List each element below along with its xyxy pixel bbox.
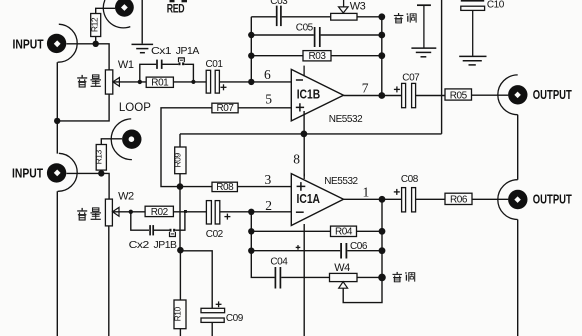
wire JP1B up to R02 out	[175, 212, 185, 230]
node input1/R12	[93, 41, 99, 47]
node pin7	[378, 92, 385, 99]
jack INPUT2	[47, 153, 77, 191]
wire sleeve between output jacks	[517, 115, 519, 180]
wire pin1 row to C08	[344, 198, 403, 200]
wire input1 sleeve down	[56, 62, 58, 153]
wire input1 tip to W1 top	[66, 44, 109, 70]
capacitor C04	[275, 267, 280, 289]
wire row C03	[251, 16, 276, 18]
wire C03 to W3	[282, 16, 331, 18]
svg-text:Cx1: Cx1	[151, 46, 172, 57]
wire C10 to ground	[472, 10, 474, 56]
wire RED jack sleeve (cut at top) to ground	[141, 0, 143, 44]
resistor R08	[212, 182, 237, 193]
wire C07 to R05	[416, 95, 446, 97]
wire input2 tip to W2	[66, 173, 109, 199]
node power row / pin8	[301, 131, 308, 138]
svg-text:R12: R12	[89, 17, 99, 32]
svg-text:OUTPUT: OUTPUT	[533, 88, 572, 102]
node pin1	[379, 196, 386, 203]
wire R04 to right net	[357, 230, 383, 232]
jumper JP1B	[169, 229, 175, 237]
wire R08 to pin3	[237, 186, 291, 188]
svg-text:5: 5	[265, 92, 272, 107]
svg-text:R02: R02	[151, 207, 169, 218]
svg-text:R09: R09	[173, 153, 183, 168]
svg-text:7: 7	[362, 81, 369, 96]
svg-text:R10: R10	[172, 306, 182, 321]
node C05 right	[378, 32, 385, 39]
capacitor C08 (electrolytic)	[402, 188, 416, 212]
jack LOOP	[111, 119, 141, 160]
wire IC1B left net vertical	[250, 17, 252, 82]
op-amp IC1B	[291, 66, 343, 121]
wire pin8 to IC1A	[303, 134, 305, 177]
node pin6/left net	[248, 79, 254, 85]
capacitor C06	[341, 243, 346, 259]
wire W1 wiper to R01	[113, 81, 146, 83]
jack RED (top, cut at image top)	[103, 0, 134, 28]
cut text fragments at top edge above RED	[170, 0, 188, 2]
wire LOOP bracket (pin5 row to pin3 row)	[161, 108, 212, 187]
svg-text:NE5532: NE5532	[324, 175, 358, 187]
ground under RED jack	[132, 44, 154, 52]
svg-text:R03: R03	[309, 51, 327, 62]
wire LOOP jack tip to R13	[101, 139, 122, 145]
wire branch riser wiper to Cx1	[140, 64, 156, 82]
node R10/C09	[177, 247, 184, 254]
resistor R06	[445, 193, 472, 206]
node wiper/Cx1 branch	[138, 80, 142, 84]
label 音调 (tone) ch1	[394, 13, 416, 23]
node W3/right net	[378, 13, 385, 20]
wire left net corner to C04	[251, 251, 274, 278]
potentiometer W3	[331, 0, 357, 20]
wire C08 to R06	[416, 198, 446, 200]
svg-text:IC1A: IC1A	[297, 192, 321, 206]
jack OUTPUT2	[498, 180, 528, 220]
capacitor C09 (electrolytic)	[201, 308, 225, 322]
jumper JP1A	[178, 58, 184, 65]
plus mark C01	[221, 84, 227, 90]
wire V+ rail from top to power row	[441, 0, 443, 134]
resistor R05	[445, 89, 472, 101]
wire pin7 row to C07	[344, 95, 403, 97]
wire C04 to W4	[281, 276, 329, 278]
wire R10 bottom (cut)	[179, 329, 181, 336]
svg-text:INPUT: INPUT	[12, 166, 43, 180]
capacitor Cx1	[157, 60, 162, 69]
node R03 left	[248, 53, 254, 59]
svg-text:W3: W3	[350, 1, 366, 13]
wire C06 to right net	[347, 250, 382, 252]
node R04 right	[379, 228, 386, 235]
wire C09 branch	[180, 251, 212, 308]
svg-text:C09: C09	[226, 313, 244, 324]
wire R07 to pin5	[238, 107, 291, 109]
svg-text:INPUT: INPUT	[13, 37, 44, 51]
svg-text:Cx2: Cx2	[129, 240, 150, 251]
svg-text:1: 1	[363, 184, 370, 199]
wire R02 to C02	[173, 211, 206, 213]
svg-text:R01: R01	[151, 78, 169, 89]
node R04 left	[248, 228, 254, 234]
wire W2 bottom down (cut at bottom)	[108, 226, 110, 336]
wire IC1B pin4 down to power row	[303, 111, 305, 134]
svg-text:JP1A: JP1A	[176, 46, 200, 57]
wire R01 to C01	[173, 81, 206, 83]
wire W2 wiper to R02	[113, 211, 146, 213]
wire W3 to right net	[357, 16, 382, 18]
wire R09 node down to R10 node	[179, 187, 181, 251]
wire Cx1 to JP1A	[163, 63, 179, 65]
capacitor C02 (electrolytic)	[206, 201, 219, 224]
svg-text:R08: R08	[216, 182, 234, 193]
wire IC1B right net vertical	[381, 17, 383, 96]
wire W1 bottom return to sleeve	[57, 94, 109, 121]
svg-text:IC1B: IC1B	[297, 88, 321, 102]
label 音调 (tone) ch2	[392, 272, 414, 282]
label 音量 (volume) ch2	[77, 208, 101, 220]
svg-text:C05: C05	[296, 22, 314, 33]
potentiometer W4	[330, 273, 358, 288]
resistor R02	[145, 206, 173, 218]
svg-text:C10: C10	[487, 0, 505, 10]
wire R06 to output jack2	[472, 198, 508, 200]
node R01/JP1A out	[191, 80, 195, 84]
svg-text:3: 3	[265, 172, 272, 187]
wire W4 wiper loop	[343, 277, 382, 302]
node wiper/Cx2 branch	[129, 210, 133, 214]
resistor R07	[212, 103, 238, 114]
svg-text:C08: C08	[401, 174, 419, 185]
svg-text:R07: R07	[217, 103, 235, 114]
resistor R04	[331, 226, 357, 238]
wire output jack2 sleeve down (cut at bottom)	[517, 220, 519, 336]
wire R05 to output jack1	[472, 94, 509, 96]
wire RED jack tip to R12	[96, 8, 116, 13]
svg-text:W1: W1	[118, 59, 134, 71]
node sleeve/W1 return	[54, 118, 60, 124]
wire IC1A left net vertical	[250, 212, 252, 251]
wire row C05	[251, 34, 313, 36]
svg-text:W2: W2	[118, 190, 134, 202]
wire branch riser wiper down to Cx2	[131, 212, 149, 230]
svg-text:R05: R05	[450, 90, 468, 101]
node R03 right	[378, 52, 385, 59]
op-amp IC1A	[291, 174, 343, 226]
svg-text:2: 2	[265, 198, 272, 213]
svg-text:NE5532: NE5532	[329, 113, 363, 125]
wire Cx2 to JP1B	[154, 229, 169, 231]
svg-text:C04: C04	[270, 257, 288, 268]
wire JP1A to R01 out node	[184, 64, 193, 82]
capacitor C10 (cut at top)	[461, 0, 485, 10]
resistor R09 (vertical)	[173, 134, 187, 187]
ground under C10	[459, 56, 486, 65]
svg-text:C01: C01	[206, 59, 224, 70]
svg-text:6: 6	[264, 67, 271, 82]
wire C05 to right net	[321, 34, 382, 36]
resistor R13 (vertical)	[94, 145, 107, 171]
svg-text:RED: RED	[167, 3, 185, 15]
potentiometer W1	[105, 70, 119, 94]
node C06 right	[379, 247, 386, 254]
node pin2/left net	[248, 209, 254, 215]
potentiometer W2	[105, 199, 119, 226]
svg-text:C07: C07	[402, 73, 420, 84]
wire C02 to pin2	[220, 211, 291, 213]
plus mark C09	[216, 301, 222, 307]
wire row R04	[251, 230, 330, 232]
svg-text:R13: R13	[94, 149, 104, 164]
resistor R10 (vertical)	[172, 300, 186, 329]
svg-text:OUTPUT: OUTPUT	[533, 193, 572, 207]
svg-text:W4: W4	[334, 262, 350, 274]
resistor R03	[303, 51, 331, 62]
svg-text:C02: C02	[206, 229, 224, 240]
wire C01 to IC1B pin6	[219, 81, 291, 83]
node tone ch2	[378, 274, 386, 282]
jack OUTPUT1	[498, 75, 528, 115]
capacitor Cx2	[150, 225, 153, 235]
svg-text:LOOP: LOOP	[119, 100, 151, 114]
wire R12 to input1 node	[95, 37, 97, 44]
capacitor plate + ground right of tone label	[411, 5, 436, 57]
svg-text:R06: R06	[450, 195, 468, 206]
wire IC1A pin4 down (cut at bottom)	[303, 224, 305, 336]
wire row C06	[251, 250, 340, 252]
wire C09 bottom (cut)	[211, 322, 213, 336]
svg-text:C03: C03	[270, 0, 288, 7]
wire R03 to right net	[331, 55, 382, 57]
node R09/R08	[177, 183, 184, 190]
jack INPUT1	[47, 24, 77, 62]
wire W4 right to tone node	[357, 276, 382, 278]
plus mark C02	[224, 214, 230, 220]
capacitor C07 (electrolytic)	[402, 83, 416, 107]
wire R10 node branch	[179, 250, 181, 300]
svg-text:8: 8	[293, 152, 300, 167]
label 音量 (volume) ch1	[77, 75, 101, 87]
wire power/feedback row	[180, 133, 442, 135]
wire row R03 left	[251, 55, 303, 57]
plus mark C07	[394, 86, 400, 92]
node C06 left	[248, 248, 254, 254]
wire R13 to input2 tip	[100, 170, 102, 173]
resistor R12	[89, 14, 100, 37]
plus mark C06	[296, 245, 301, 250]
svg-text:R04: R04	[335, 227, 353, 238]
node C05 left	[248, 32, 254, 38]
resistor R01	[146, 77, 173, 88]
svg-text:JP1B: JP1B	[154, 240, 178, 251]
plus mark C08	[394, 189, 400, 195]
capacitor C05	[315, 27, 320, 47]
wire IC1A right net vertical	[381, 199, 383, 277]
capacitor C01 (electrolytic)	[206, 70, 219, 93]
capacitor C03	[277, 6, 281, 27]
wire input2 sleeve down (cut at bottom)	[56, 191, 58, 336]
node R13/input2	[98, 170, 104, 176]
node R02 out (square)	[184, 210, 187, 213]
